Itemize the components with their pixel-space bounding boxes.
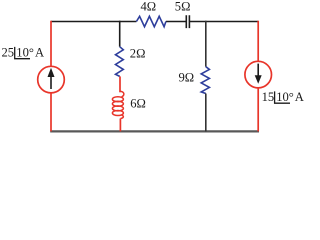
wire: top rail middle segment (between 4ohm resistor and capacitor)	[166, 21, 186, 23]
svg-text:15: 15	[262, 90, 275, 104]
wire: middle branch top black segment	[119, 21, 121, 47]
current source I1 25/_10 A (circle)	[38, 66, 65, 93]
wire: bottom rail (gray)	[50, 130, 259, 132]
svg-text:5Ω: 5Ω	[175, 0, 191, 14]
resistor 2ohm (vertical, blue zigzag)	[116, 47, 124, 77]
svg-text:25: 25	[2, 45, 15, 59]
svg-text:A: A	[35, 45, 44, 59]
svg-text:9Ω: 9Ω	[179, 71, 195, 85]
wire: right branch upper red segment	[257, 21, 259, 62]
wire: right branch lower red segment	[257, 88, 259, 131]
svg-text:2Ω: 2Ω	[130, 47, 146, 61]
svg-text:10°: 10°	[276, 90, 294, 104]
wire: left branch lower red segment	[50, 93, 52, 131]
wire: 9ohm branch top segment	[205, 21, 207, 67]
svg-text:A: A	[295, 90, 304, 104]
capacitor 5ohm plates	[186, 15, 189, 28]
wire: left branch upper red segment	[50, 21, 52, 67]
resistor 9ohm (vertical, blue zigzag)	[201, 67, 209, 94]
angle symbol for right source label	[275, 91, 290, 103]
resistor 4ohm (top, horizontal, blue zigzag)	[136, 16, 166, 26]
current source I2 arrow (down)	[257, 64, 259, 78]
wire: top rail left segment	[51, 21, 136, 23]
wire: 9ohm branch bottom segment	[205, 94, 207, 132]
wire: middle branch red segment between 2ohm and 6ohm	[119, 76, 121, 92]
current source I1 arrow (up)	[50, 76, 52, 90]
inductor 6ohm (red coil)	[112, 91, 123, 118]
angle symbol for left source label	[15, 47, 30, 59]
svg-text:10°: 10°	[16, 45, 34, 59]
wire: middle branch bottom red segment	[119, 119, 121, 132]
svg-text:6Ω: 6Ω	[130, 97, 146, 111]
current source I2 15/_10 A (circle)	[245, 61, 272, 88]
wire: top rail right segment	[190, 21, 258, 23]
svg-text:4Ω: 4Ω	[141, 0, 157, 14]
